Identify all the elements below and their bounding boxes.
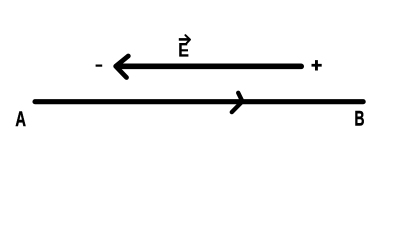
label E xyxy=(179,43,188,57)
arrowhead on AB line (pointing right) xyxy=(232,93,243,112)
svg-text:A: A xyxy=(15,106,26,131)
vector arrow over E xyxy=(179,38,189,41)
E-field arrow shaft (top line) xyxy=(118,64,302,70)
plus label xyxy=(312,60,322,70)
E-field arrowhead (left, pointing left) xyxy=(116,56,129,78)
line A to B (bottom) xyxy=(35,99,363,104)
svg-text:B: B xyxy=(355,106,365,131)
minus label xyxy=(96,65,103,67)
